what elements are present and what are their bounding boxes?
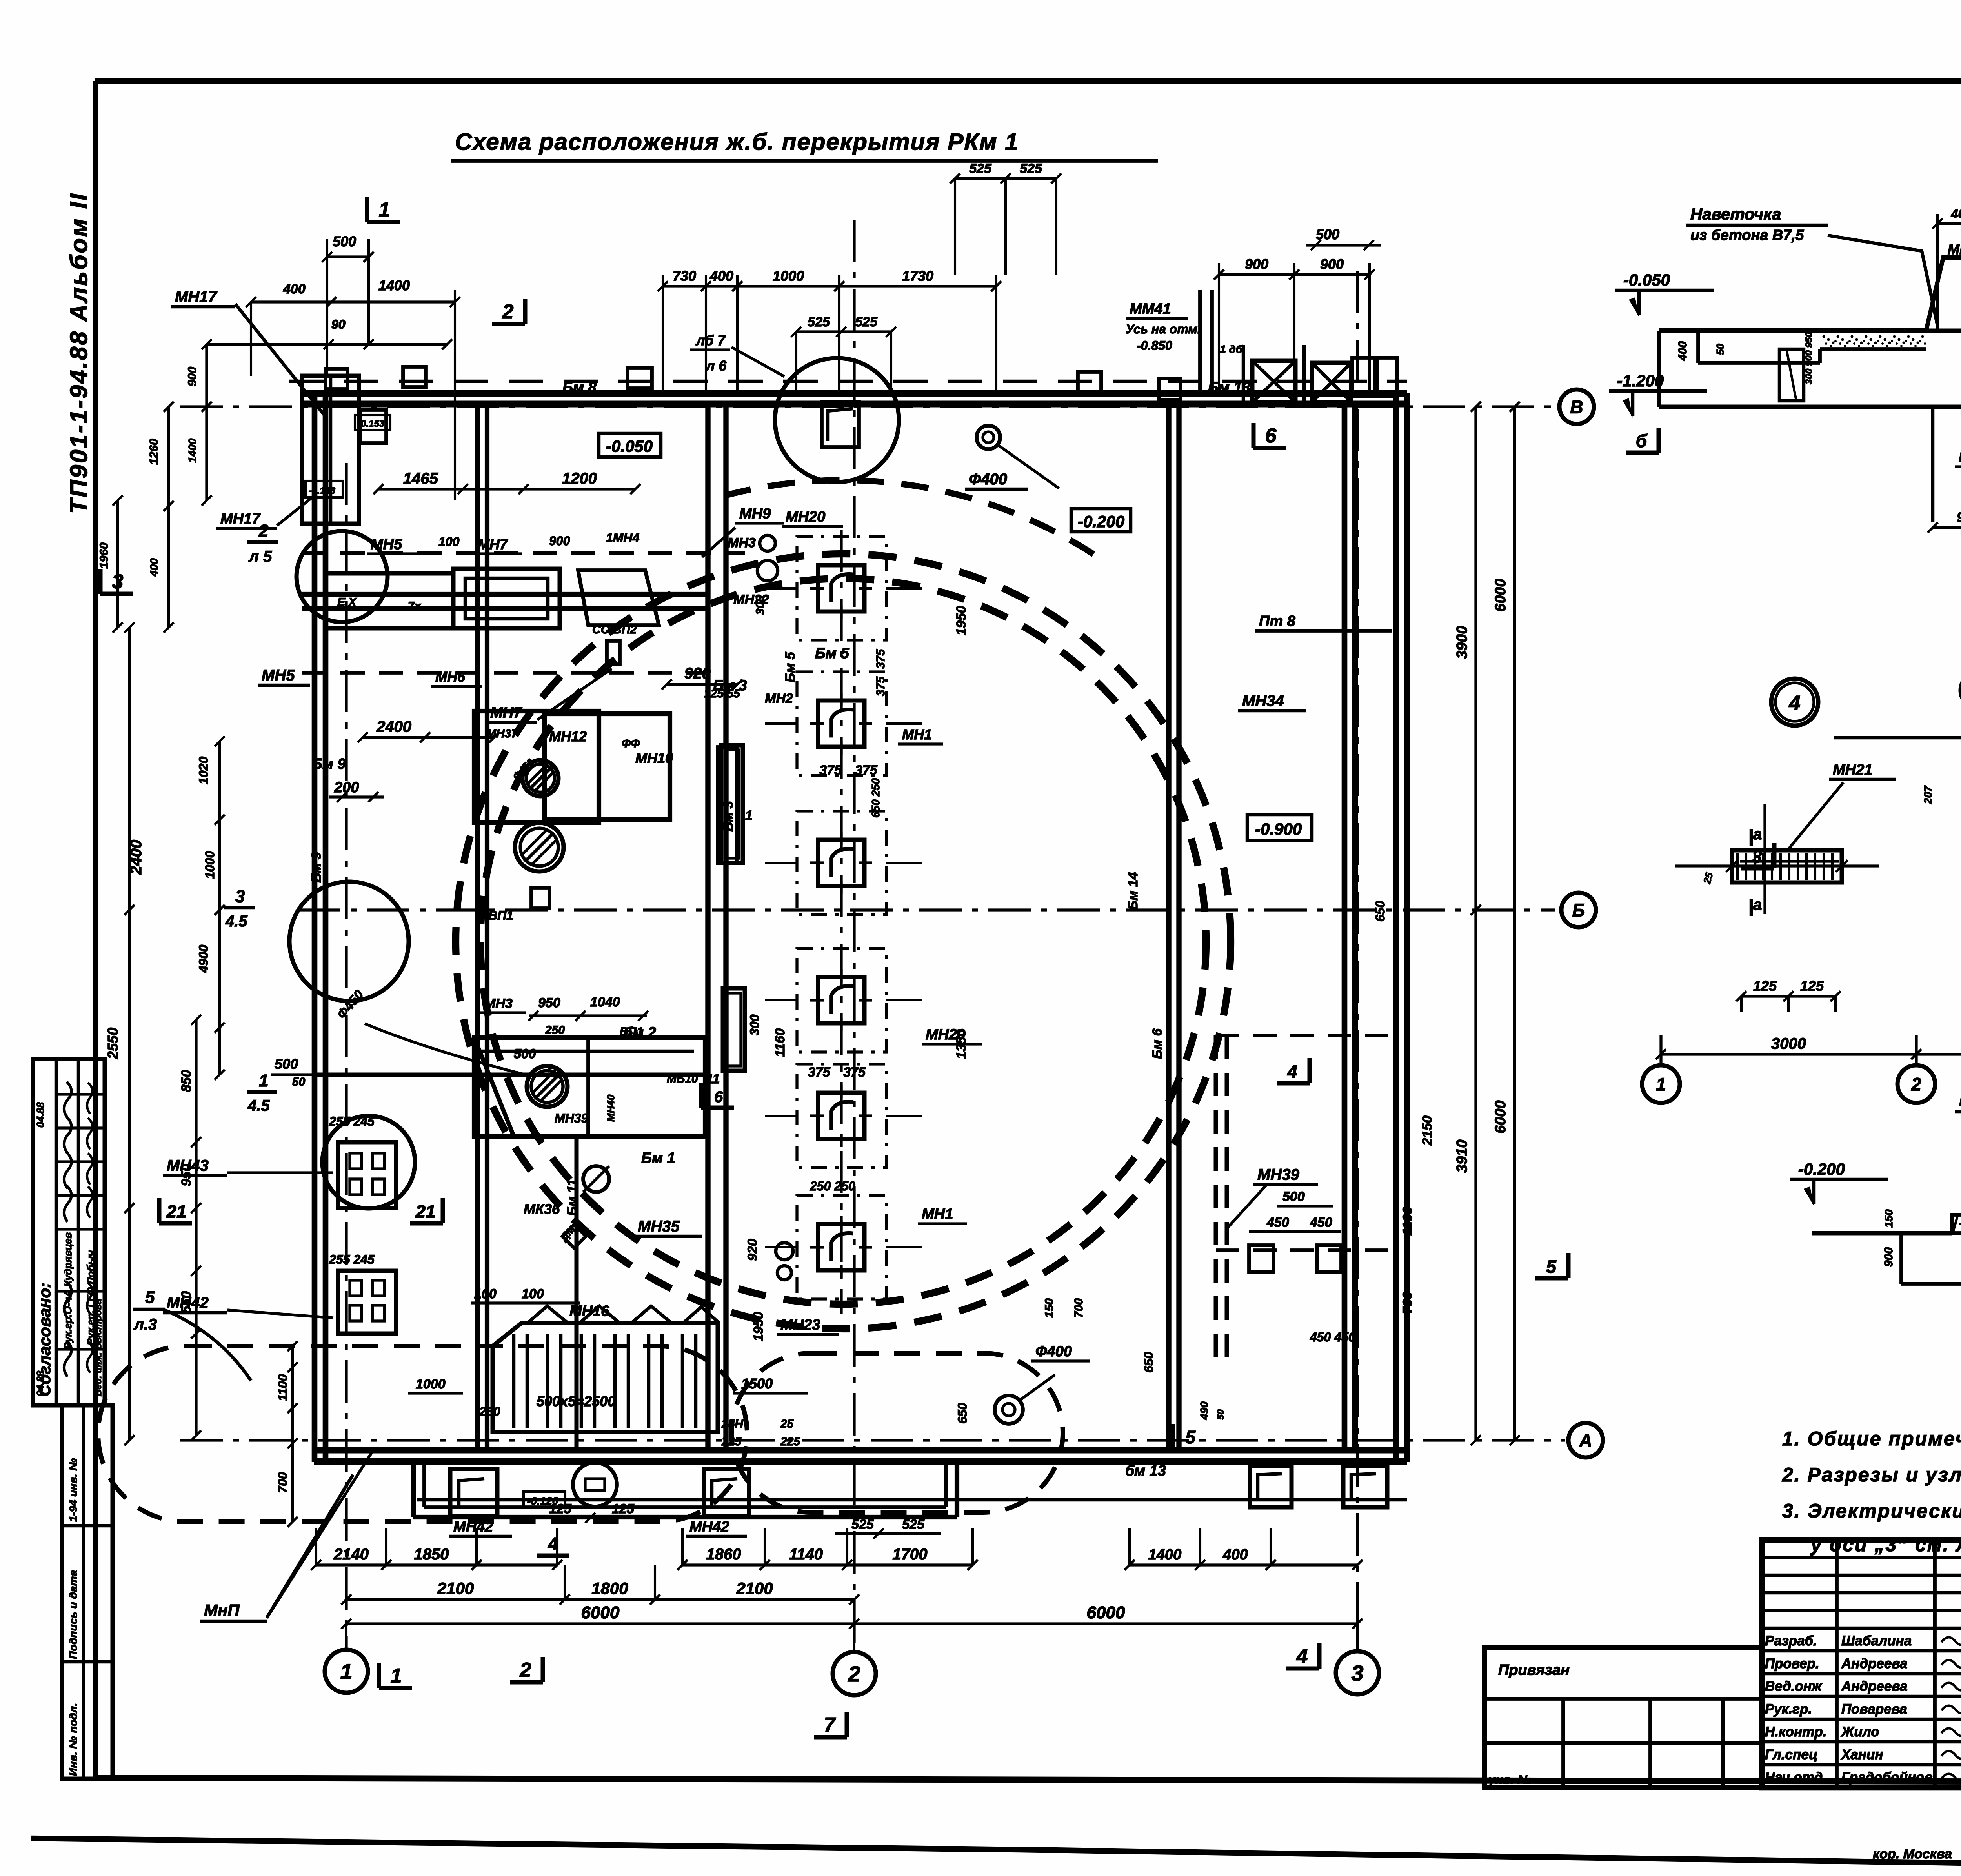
MN41 note top: [1126, 301, 1201, 353]
svg-text:унв. №: унв. №: [1488, 1772, 1532, 1787]
level label -0.153 small: [355, 415, 390, 430]
svg-text:125: 125: [549, 1501, 572, 1516]
svg-text:375: 375: [843, 1065, 866, 1080]
svg-text:МК36: МК36: [524, 1201, 560, 1217]
svg-text:2: 2: [848, 1661, 860, 1686]
column MN20 #4: [765, 948, 922, 1052]
bottom dimension chains: [311, 1528, 1363, 1650]
svg-text:100: 100: [438, 535, 460, 549]
svg-text:125: 125: [1800, 978, 1824, 994]
svg-text:3910: 3910: [1454, 1139, 1470, 1173]
svg-text:Ф400: Ф400: [969, 471, 1007, 488]
svg-text:6000: 6000: [1492, 579, 1509, 612]
main title: [451, 129, 1158, 161]
svg-text:1350: 1350: [954, 1029, 969, 1059]
svg-text:1100: 1100: [1400, 1207, 1415, 1236]
svg-text:у оси „3” см. л.22.: у оси „3” см. л.22.: [1810, 1534, 1961, 1556]
svg-text:100: 100: [474, 1286, 497, 1301]
svg-text:1000: 1000: [203, 851, 217, 879]
svg-text:450 450: 450 450: [1310, 1330, 1355, 1344]
svg-text:4.5: 4.5: [225, 913, 247, 930]
svg-text:ВП1: ВП1: [488, 908, 513, 923]
bubbles B and A column: [1834, 672, 1961, 824]
top right pillar cluster: [1159, 290, 1397, 402]
svg-text:450: 450: [1310, 1215, 1332, 1230]
svg-text:7: 7: [824, 1714, 836, 1736]
svg-text:650 250: 650 250: [870, 778, 882, 818]
svg-text:бм 13: бм 13: [1125, 1463, 1166, 1479]
svg-text:МН6: МН6: [435, 669, 466, 685]
svg-text:МН3: МН3: [728, 535, 756, 550]
svg-text:150: 150: [1883, 1209, 1895, 1228]
svg-text:920: 920: [684, 665, 711, 682]
left dimension chains: [105, 622, 499, 1527]
grid bubble 3: [1336, 1651, 1379, 1694]
callout bubble 4: [1771, 679, 1818, 726]
a-a left plate detail: [1675, 762, 1896, 916]
svg-text:1500: 1500: [741, 1376, 773, 1392]
svg-text:1100: 1100: [276, 1374, 290, 1401]
svg-text:1950: 1950: [751, 1312, 766, 1341]
svg-text:700: 700: [1072, 1298, 1085, 1318]
svg-text:125: 125: [612, 1501, 635, 1516]
svg-text:Вед.онж: Вед.онж: [1765, 1679, 1823, 1694]
svg-text:Ханин: Ханин: [1841, 1747, 1883, 1762]
svg-text:500: 500: [514, 1046, 536, 1061]
svg-text:4900: 4900: [196, 945, 211, 973]
svg-text:3: 3: [235, 887, 245, 906]
svg-text:Бм 6: Бм 6: [1150, 1028, 1165, 1059]
svg-text:МН20: МН20: [786, 509, 825, 525]
svg-text:МН34: МН34: [1242, 692, 1284, 710]
svg-text:1: 1: [391, 1665, 402, 1687]
svg-text:Бм 14: Бм 14: [1126, 872, 1141, 910]
svg-text:Бм 5: Бм 5: [783, 651, 798, 682]
svg-text:Наветснка: Наветснка: [1959, 1092, 1961, 1110]
svg-text:2: 2: [1911, 1074, 1921, 1095]
MN43 detail boxes left: [163, 1114, 396, 1334]
svg-text:Бм 3: Бм 3: [721, 801, 736, 832]
svg-text:500: 500: [275, 1056, 298, 1072]
svg-text:л 6: л 6: [705, 358, 727, 374]
svg-text:1860: 1860: [706, 1546, 741, 1563]
svg-text:400: 400: [1676, 341, 1689, 361]
bottom footprint squares: [449, 1466, 1387, 1536]
level label -0.153: [306, 481, 343, 497]
svg-text:90: 90: [331, 317, 346, 331]
right vertical dim chains: [1454, 402, 1520, 1445]
inner dims misc: [373, 470, 1226, 1539]
svg-text:6000: 6000: [581, 1603, 620, 1622]
level label -0.900: [1247, 815, 1312, 841]
grid bubble 1: [325, 1650, 368, 1693]
svg-text:Андреева: Андреева: [1841, 1656, 1908, 1671]
svg-text:-0.200: -0.200: [1798, 1160, 1845, 1178]
svg-text:250: 250: [479, 1405, 500, 1419]
svg-text:375: 375: [855, 763, 878, 778]
svg-text:1140: 1140: [789, 1546, 823, 1563]
svg-text:МН9: МН9: [739, 506, 771, 522]
svg-text:л.3: л.3: [133, 1316, 157, 1333]
svg-text:3: 3: [1351, 1661, 1363, 1685]
small circles on grid2: [733, 535, 793, 1280]
svg-text:МН12: МН12: [549, 728, 587, 744]
svg-text:2: 2: [520, 1659, 531, 1681]
svg-text:207: 207: [1922, 785, 1934, 804]
svg-text:100: 100: [522, 1286, 544, 1301]
section 6-6 drawing: [1659, 257, 1961, 522]
notes text: [1782, 1428, 1961, 1556]
svg-text:Бм 11: Бм 11: [565, 1179, 580, 1216]
svg-text:кор. Москва: кор. Москва: [1873, 1847, 1952, 1861]
grid bubble V: [1559, 389, 1594, 424]
slot element 2: [723, 988, 745, 1071]
svg-text:1-94 инв. №: 1-94 инв. №: [67, 1458, 79, 1522]
rooms MN12 MN10: [474, 687, 793, 863]
svg-text:Н.контр.: Н.контр.: [1765, 1724, 1826, 1740]
svg-text:400: 400: [1951, 207, 1961, 221]
svg-text:МН5: МН5: [262, 667, 295, 684]
svg-text:1. Общие примечания см л.1.: 1. Общие примечания см л.1.: [1782, 1428, 1961, 1450]
svg-text:МН9: МН9: [1948, 241, 1961, 257]
svg-text:Привязан: Привязан: [1498, 1662, 1570, 1678]
svg-text:375: 375: [874, 676, 887, 696]
svg-text:920: 920: [745, 1239, 760, 1261]
svg-text:525: 525: [902, 1517, 925, 1532]
svg-text:ТП901-1-94.88 Альбом II: ТП901-1-94.88 Альбом II: [65, 192, 93, 514]
svg-text:МЬ10: МЬ10: [667, 1072, 698, 1085]
svg-text:1: 1: [340, 1659, 352, 1684]
svg-text:50: 50: [292, 1075, 306, 1088]
svg-text:900: 900: [549, 534, 570, 548]
svg-text:2100: 2100: [437, 1579, 474, 1598]
svg-text:850: 850: [179, 1070, 194, 1092]
column MN20 #3: [765, 811, 922, 915]
svg-text:255 245: 255 245: [329, 1252, 375, 1266]
svg-text:Схема расположения ж.б. пер: Схема расположения ж.б. перекрытия РКм 1: [455, 129, 1019, 155]
svg-text:450: 450: [1266, 1215, 1289, 1230]
svg-text:5: 5: [1546, 1256, 1557, 1277]
svg-text:400: 400: [148, 558, 160, 577]
svg-text:-0.050: -0.050: [1623, 271, 1670, 289]
svg-text:4: 4: [1296, 1645, 1308, 1668]
a-a dims below: [1656, 978, 1961, 1066]
svg-text:525: 525: [808, 315, 830, 329]
svg-text:2: 2: [502, 300, 514, 323]
svg-text:1200: 1200: [562, 470, 597, 487]
svg-text:375: 375: [874, 649, 887, 669]
svg-text:25: 25: [780, 1417, 794, 1430]
svg-text:из бетона В7,5: из бетона В7,5: [1690, 227, 1804, 244]
svg-text:900: 900: [1957, 509, 1961, 525]
detail MN17 top-left: [98, 233, 1101, 633]
svg-text:50: 50: [1215, 1409, 1226, 1420]
MN17 bottom-left label: [200, 1451, 373, 1621]
svg-text:300: 300: [748, 1014, 762, 1035]
callout label 5/l3: [133, 1288, 251, 1381]
top dimension rows: [289, 161, 1407, 393]
svg-text:500: 500: [1282, 1189, 1305, 1204]
svg-text:11: 11: [706, 1072, 720, 1086]
svg-text:375: 375: [819, 763, 842, 778]
svg-text:21: 21: [415, 1201, 435, 1222]
svg-text:МН7: МН7: [478, 536, 508, 552]
svg-text:250 250: 250 250: [810, 1179, 855, 1193]
svg-text:Жило: Жило: [1841, 1724, 1879, 1740]
dashed stadium bottom protrusion: [98, 1346, 1063, 1522]
svg-text:л 5: л 5: [248, 548, 272, 565]
svg-text:4: 4: [1789, 692, 1801, 715]
svg-text:1465: 1465: [403, 470, 438, 487]
svg-text:525: 525: [969, 161, 992, 176]
svg-text:3. Электрические каналы для: 3. Электрические каналы для прокладки ка…: [1782, 1500, 1961, 1522]
beam labels: [309, 379, 1296, 1479]
svg-text:Наветочка: Наветочка: [1690, 205, 1781, 223]
svg-text:Градобойнов: Градобойнов: [1841, 1770, 1933, 1785]
svg-text:50: 50: [1714, 344, 1726, 355]
svg-text:900: 900: [1245, 256, 1268, 272]
svg-text:3900: 3900: [1454, 626, 1470, 659]
grid bubble 2: [833, 1652, 876, 1695]
grid axis lines dash-dot: [180, 220, 1565, 1649]
svg-text:400: 400: [709, 268, 733, 284]
svg-text:2100: 2100: [736, 1579, 773, 1598]
svg-text:525: 525: [855, 315, 878, 329]
svg-text:МН39: МН39: [555, 1111, 588, 1125]
svg-text:МН1: МН1: [902, 726, 932, 742]
svg-text:1040: 1040: [590, 995, 620, 1010]
svg-text:МН5: МН5: [371, 536, 402, 553]
svg-text:Провер.: Провер.: [1765, 1656, 1819, 1671]
svg-text:5: 5: [1185, 1427, 1196, 1447]
svg-text:СО ВП2: СО ВП2: [592, 623, 637, 636]
svg-text:Бм 1: Бм 1: [641, 1150, 675, 1166]
title block main table: [1762, 1540, 1961, 1788]
column MN20 #2: [765, 672, 922, 775]
svg-text:650: 650: [1142, 1352, 1156, 1373]
svg-text:255 245: 255 245: [329, 1114, 375, 1128]
left inventory strip: [62, 1405, 113, 1779]
svg-text:МН42: МН42: [453, 1519, 493, 1535]
callout circle left 2/l5: [247, 521, 387, 622]
column MN20 #1: [765, 537, 922, 640]
corridor detail MN5-MN7: [258, 506, 784, 722]
svg-text:1: 1: [259, 1071, 268, 1090]
svg-text:1160: 1160: [773, 1028, 788, 1057]
svg-text:а: а: [1753, 896, 1762, 913]
section 7-7 labels: [1790, 1079, 1961, 1385]
svg-text:МН42: МН42: [689, 1519, 729, 1535]
svg-text:лб 7: лб 7: [695, 332, 726, 348]
svg-text:150: 150: [1043, 1298, 1056, 1318]
plan outer walls: [302, 393, 1407, 1500]
svg-text:1800: 1800: [591, 1579, 628, 1598]
svg-text:Поварева: Поварева: [1841, 1701, 1907, 1717]
svg-text:125 55: 125 55: [704, 687, 740, 700]
svg-text:а: а: [1753, 826, 1762, 843]
svg-text:6: 6: [714, 1088, 723, 1106]
svg-text:А: А: [1579, 1430, 1592, 1451]
svg-text:525: 525: [851, 1517, 874, 1532]
svg-text:Андреева: Андреева: [1841, 1679, 1908, 1694]
svg-text:1260: 1260: [147, 439, 160, 465]
svg-text:225: 225: [721, 1435, 742, 1448]
svg-text:ФФ: ФФ: [622, 737, 640, 750]
f400 drain bottom: [995, 1343, 1090, 1424]
svg-text:550: 550: [179, 1291, 194, 1314]
svg-text:900: 900: [186, 367, 199, 386]
svg-text:В: В: [1570, 397, 1583, 417]
svg-text:650: 650: [1373, 901, 1387, 922]
svg-text:МН23: МН23: [780, 1317, 820, 1333]
svg-text:525: 525: [1020, 161, 1042, 176]
svg-text:2400: 2400: [376, 718, 411, 735]
svg-text:2150: 2150: [1420, 1115, 1435, 1146]
svg-text:-0.900: -0.900: [1255, 820, 1302, 838]
privyazan table: [1484, 1648, 1762, 1788]
svg-text:Б: Б: [1572, 900, 1585, 921]
svg-text:225: 225: [780, 1435, 800, 1448]
svg-text:7х: 7х: [408, 600, 422, 613]
svg-text:700: 700: [1400, 1292, 1415, 1314]
svg-text:МН39: МН39: [1257, 1166, 1299, 1183]
svg-text:1400: 1400: [378, 277, 410, 293]
svg-text:250: 250: [545, 1024, 565, 1037]
svg-text:МН21: МН21: [1833, 762, 1872, 778]
svg-text:Разраб.: Разраб.: [1765, 1633, 1817, 1649]
svg-text:1: 1: [745, 808, 753, 823]
section 6-6 labels: [1609, 205, 1961, 467]
svg-text:21: 21: [166, 1201, 186, 1222]
column MN20 #6: [765, 1195, 922, 1299]
svg-text:Бм 5: Бм 5: [815, 645, 850, 662]
svg-text:Пт 8: Пт 8: [1259, 613, 1296, 630]
grid bubble A: [1568, 1423, 1603, 1457]
svg-text:1000: 1000: [773, 268, 804, 284]
svg-text:5: 5: [145, 1288, 155, 1307]
svg-text:50: 50: [547, 1065, 560, 1077]
svg-text:900: 900: [1882, 1247, 1895, 1267]
svg-text:500: 500: [333, 233, 356, 249]
svg-text:-0.153: -0.153: [309, 486, 336, 496]
svg-text:Мн41: Мн41: [1959, 449, 1961, 465]
svg-text:300 900 950: 300 900 950: [1804, 332, 1814, 384]
svg-text:1: 1: [379, 198, 390, 221]
svg-text:1000: 1000: [416, 1377, 446, 1392]
svg-text:1: 1: [1656, 1074, 1666, 1095]
svg-text:400: 400: [283, 282, 306, 297]
svg-text:Вед. инж. Быстрова: Вед. инж. Быстрова: [93, 1299, 104, 1396]
svg-text:МН35: МН35: [638, 1218, 680, 1235]
svg-text:650: 650: [955, 1403, 970, 1424]
svg-text:2. Разрезы и узлы см. л. 3÷: 2. Разрезы и узлы см. л. 3÷л.7.: [1782, 1464, 1961, 1486]
svg-text:950: 950: [179, 1164, 194, 1186]
section 7-7 drawing: [1812, 1215, 1961, 1382]
svg-text:МН1: МН1: [922, 1206, 953, 1223]
svg-text:950: 950: [538, 995, 560, 1010]
section marks around plan: [100, 197, 1774, 1737]
svg-text:730: 730: [673, 268, 696, 284]
svg-text:Инв. № подл.: Инв. № подл.: [67, 1703, 79, 1776]
kor moskva note: [1869, 1847, 1961, 1863]
svg-text:МН17: МН17: [175, 288, 217, 306]
svg-text:1700: 1700: [893, 1546, 928, 1563]
svg-text:4: 4: [1287, 1061, 1297, 1082]
svg-text:2140: 2140: [333, 1546, 369, 1563]
svg-text:Рук.гр.: Рук.гр.: [1765, 1701, 1812, 1717]
svg-text:Ф400: Ф400: [1035, 1343, 1072, 1360]
svg-text:6: 6: [1265, 424, 1277, 447]
MN36 MN35 cluster: [524, 1166, 702, 1248]
svg-text:1850: 1850: [414, 1546, 449, 1563]
svg-text:-1.200: -1.200: [1617, 371, 1664, 390]
column labels and dims at grid2: [745, 509, 982, 1341]
svg-text:125: 125: [1753, 978, 1777, 994]
svg-text:МнП: МнП: [204, 1601, 240, 1619]
svg-text:МН40: МН40: [605, 1094, 617, 1122]
svg-text:Усь на отм.: Усь на отм.: [1126, 322, 1201, 336]
column MN20 #5: [765, 1064, 922, 1168]
tank right area details: [1216, 631, 1435, 1357]
svg-text:1020: 1020: [196, 757, 211, 784]
svg-text:-0.850: -0.850: [1137, 338, 1172, 353]
callout circle left 3/l5: [224, 882, 409, 1001]
svg-text:1400: 1400: [1148, 1547, 1182, 1563]
slot element 1: [721, 745, 743, 863]
callout circle left 1/l5: [247, 1071, 415, 1208]
svg-text:Гл.спец: Гл.спец: [1765, 1747, 1818, 1762]
svg-text:2550: 2550: [105, 1028, 121, 1059]
svg-text:6000: 6000: [1492, 1100, 1509, 1134]
svg-text:Нач.отд.: Нач.отд.: [1765, 1770, 1826, 1785]
svg-text:1 дб: 1 дб: [1220, 343, 1243, 355]
svg-text:400: 400: [1222, 1547, 1248, 1563]
bottom protrusion solid walls: [413, 1461, 957, 1517]
svg-text:1400: 1400: [186, 438, 198, 463]
level label -0.120 small: [524, 1492, 565, 1507]
big dashed circular tank walls: [456, 480, 1231, 1329]
svg-text:б: б: [1636, 431, 1648, 451]
svg-text:Бм 9: Бм 9: [312, 756, 346, 772]
svg-text:Бм 9: Бм 9: [309, 852, 324, 883]
svg-text:6000: 6000: [1087, 1603, 1125, 1622]
svg-text:Шабалина: Шабалина: [1841, 1633, 1912, 1649]
svg-text:900: 900: [1320, 256, 1344, 272]
svg-text:МН10: МН10: [635, 750, 673, 766]
bubbles 1 2 under a-a: [1642, 1065, 1935, 1103]
svg-text:375: 375: [808, 1065, 831, 1080]
svg-text:ВП1: ВП1: [620, 1025, 643, 1038]
rooms Bm2 MN39: [334, 623, 705, 1136]
svg-text:-0.200: -0.200: [1078, 512, 1124, 531]
left approval table: [33, 1059, 105, 1405]
bottom scan edge line: [31, 1838, 1961, 1864]
MN16 hatched strip: [471, 1286, 718, 1432]
svg-text:-0.050: -0.050: [606, 437, 653, 455]
grid bubble B: [1561, 893, 1596, 927]
svg-text:Е Х: Е Х: [337, 596, 357, 609]
svg-text:4.5: 4.5: [247, 1097, 270, 1114]
svg-text:500х5=2500: 500х5=2500: [537, 1393, 615, 1409]
f400 drain top: [965, 426, 1059, 489]
svg-text:МН3: МН3: [484, 996, 513, 1011]
svg-text:3000: 3000: [1771, 1035, 1806, 1052]
svg-text:1950: 1950: [954, 606, 969, 635]
svg-text:1МН4: 1МН4: [606, 531, 640, 545]
svg-text:1960: 1960: [98, 542, 111, 569]
level label -0.200: [1071, 509, 1131, 532]
section 6-6 dims: [1928, 155, 1961, 569]
